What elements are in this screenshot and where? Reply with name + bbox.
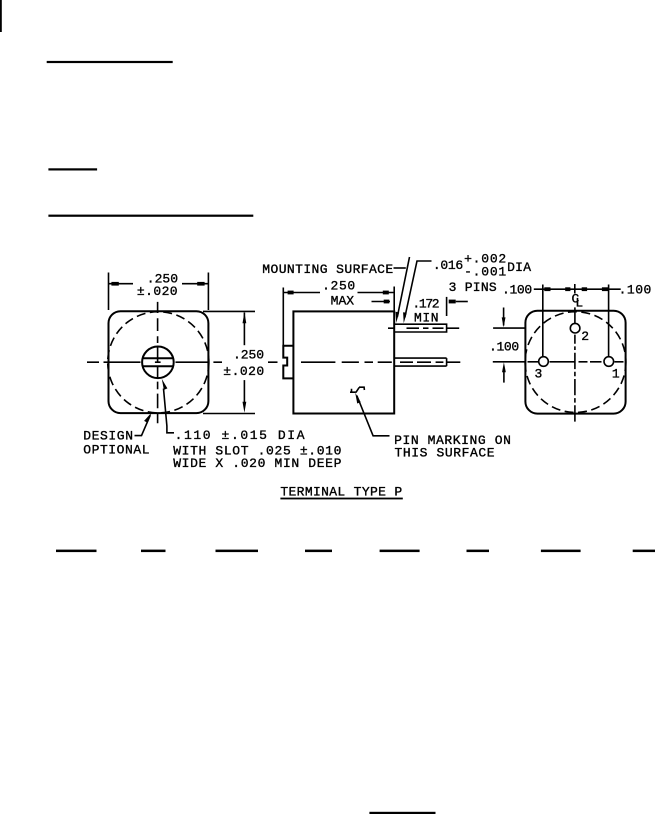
body outline (rear square) <box>525 311 625 414</box>
right dim arrow up <box>243 312 247 323</box>
svg-text:.100: .100 <box>489 340 519 355</box>
svg-text:.110 ±.015 DIA: .110 ±.015 DIA <box>175 428 305 443</box>
mounting surface label dash <box>394 267 406 269</box>
.172 right arrow <box>449 300 456 304</box>
pin marking leader <box>357 396 390 436</box>
.172 ext line at pin tip <box>446 297 448 316</box>
svg-text:.250: .250 <box>233 348 264 363</box>
.100 left dim lower arrow tail <box>503 371 505 383</box>
svg-text:DIA: DIA <box>507 260 531 275</box>
mounting surface leader arrow <box>396 312 400 323</box>
svg-text:2: 2 <box>581 329 589 344</box>
body outline (front square) <box>109 311 209 413</box>
adjuster circle <box>142 347 174 379</box>
.110 leader arrow <box>162 379 168 390</box>
horizontal centerline <box>268 361 460 363</box>
svg-text:.100: .100 <box>619 282 652 297</box>
.250 MAX ext line right <box>393 287 395 311</box>
.110 leader <box>164 389 175 433</box>
svg-text:MIN: MIN <box>414 311 439 326</box>
top dim arrow right <box>197 282 204 286</box>
top pin centerline <box>388 327 459 329</box>
pin2 level extension line <box>493 327 525 329</box>
.016 leader arrow <box>403 312 407 323</box>
body outline (side view) <box>293 311 394 413</box>
svg-text:WIDE X .020 MIN DEEP: WIDE X .020 MIN DEEP <box>173 456 341 471</box>
pin 2 circle <box>570 323 580 333</box>
DESIGN leader <box>135 415 151 435</box>
svg-text:3 PINS: 3 PINS <box>449 280 497 295</box>
top dim extension line right <box>207 273 209 311</box>
svg-text:±.020: ±.020 <box>137 284 178 299</box>
svg-text:MAX: MAX <box>331 294 355 309</box>
adjuster tab with slot (left side) <box>283 346 293 379</box>
MAX arrow line <box>372 301 391 303</box>
mounting surface leader <box>397 257 409 317</box>
top dim arrow 4 <box>602 287 608 291</box>
dashed circle (body circumference) <box>525 312 626 413</box>
.172 right arrow tail <box>456 301 468 303</box>
.250 MAX arrow left <box>288 291 294 295</box>
pin marking symbol <box>350 387 364 392</box>
slot line top <box>142 357 174 359</box>
pin 1 circle <box>604 357 614 367</box>
.100 left dim upper arrow tail <box>503 308 505 326</box>
heading underline 1 <box>47 61 173 63</box>
right dim extension line bottom <box>203 413 255 415</box>
top dim arrow 3 <box>582 287 587 291</box>
vertical centerline <box>157 302 159 423</box>
DESIGN leader arrow <box>144 413 151 423</box>
svg-text:THIS SURFACE: THIS SURFACE <box>395 446 495 461</box>
top dim line <box>534 288 621 290</box>
pin 3 circle <box>539 357 549 367</box>
title underline <box>280 498 402 500</box>
top dim extension line left <box>108 273 110 311</box>
.100 left dim lower arrow <box>502 362 506 372</box>
page corner mark <box>0 0 2 32</box>
top dim arrow 1 <box>544 287 550 291</box>
svg-text:.172: .172 <box>412 296 439 311</box>
svg-text:L: L <box>575 296 583 311</box>
MAX arrow <box>384 300 390 304</box>
.250 MAX dim line right <box>358 292 395 294</box>
top dim line right segment <box>182 283 208 285</box>
right dim arrow down <box>243 402 247 413</box>
pin3 level extension line <box>493 361 526 363</box>
svg-text:MOUNTING SURFACE: MOUNTING SURFACE <box>262 262 393 277</box>
.100 left dim upper arrow <box>502 317 506 327</box>
dashed circle (body circumference) <box>108 312 209 413</box>
svg-text:OPTIONAL: OPTIONAL <box>83 442 149 457</box>
svg-text:-.001: -.001 <box>464 264 506 279</box>
pin1 extension line vertical <box>608 285 610 357</box>
right dim line upper <box>243 313 245 346</box>
pin marking leader arrow <box>355 393 361 404</box>
top dim arrow 2 <box>565 287 570 291</box>
center pin outline <box>394 358 446 366</box>
bottom page mark <box>369 812 435 814</box>
.016 leader <box>405 261 432 318</box>
.250 MAX dim line left <box>283 292 320 294</box>
top dim arrow left <box>111 282 118 286</box>
vertical centerline <box>574 307 576 421</box>
horizontal centerline <box>87 361 222 363</box>
svg-text:3: 3 <box>535 366 543 381</box>
svg-text:1: 1 <box>612 366 620 381</box>
top pin outline <box>394 324 446 332</box>
horizontal centerline <box>528 361 624 363</box>
right dim line lower <box>243 380 245 403</box>
heading underline 2 <box>48 168 97 170</box>
slot line bottom <box>142 365 174 367</box>
svg-text:TERMINAL TYPE P: TERMINAL TYPE P <box>280 485 402 500</box>
pin3 extension line vertical <box>542 285 544 357</box>
heading underline 3 <box>48 215 253 217</box>
svg-text:.016: .016 <box>433 258 463 273</box>
svg-text:.100: .100 <box>502 282 532 297</box>
top dim line left segment <box>109 283 134 285</box>
section break dashed line <box>56 550 655 553</box>
svg-text:DESIGN: DESIGN <box>83 428 133 443</box>
.250 MAX arrow right <box>383 291 389 295</box>
.250 MAX ext line left <box>282 288 284 346</box>
svg-text:±.020: ±.020 <box>223 364 264 379</box>
right dim extension line top <box>203 310 255 312</box>
svg-text:.250: .250 <box>322 279 355 294</box>
vertical centerline top segment <box>574 284 576 294</box>
